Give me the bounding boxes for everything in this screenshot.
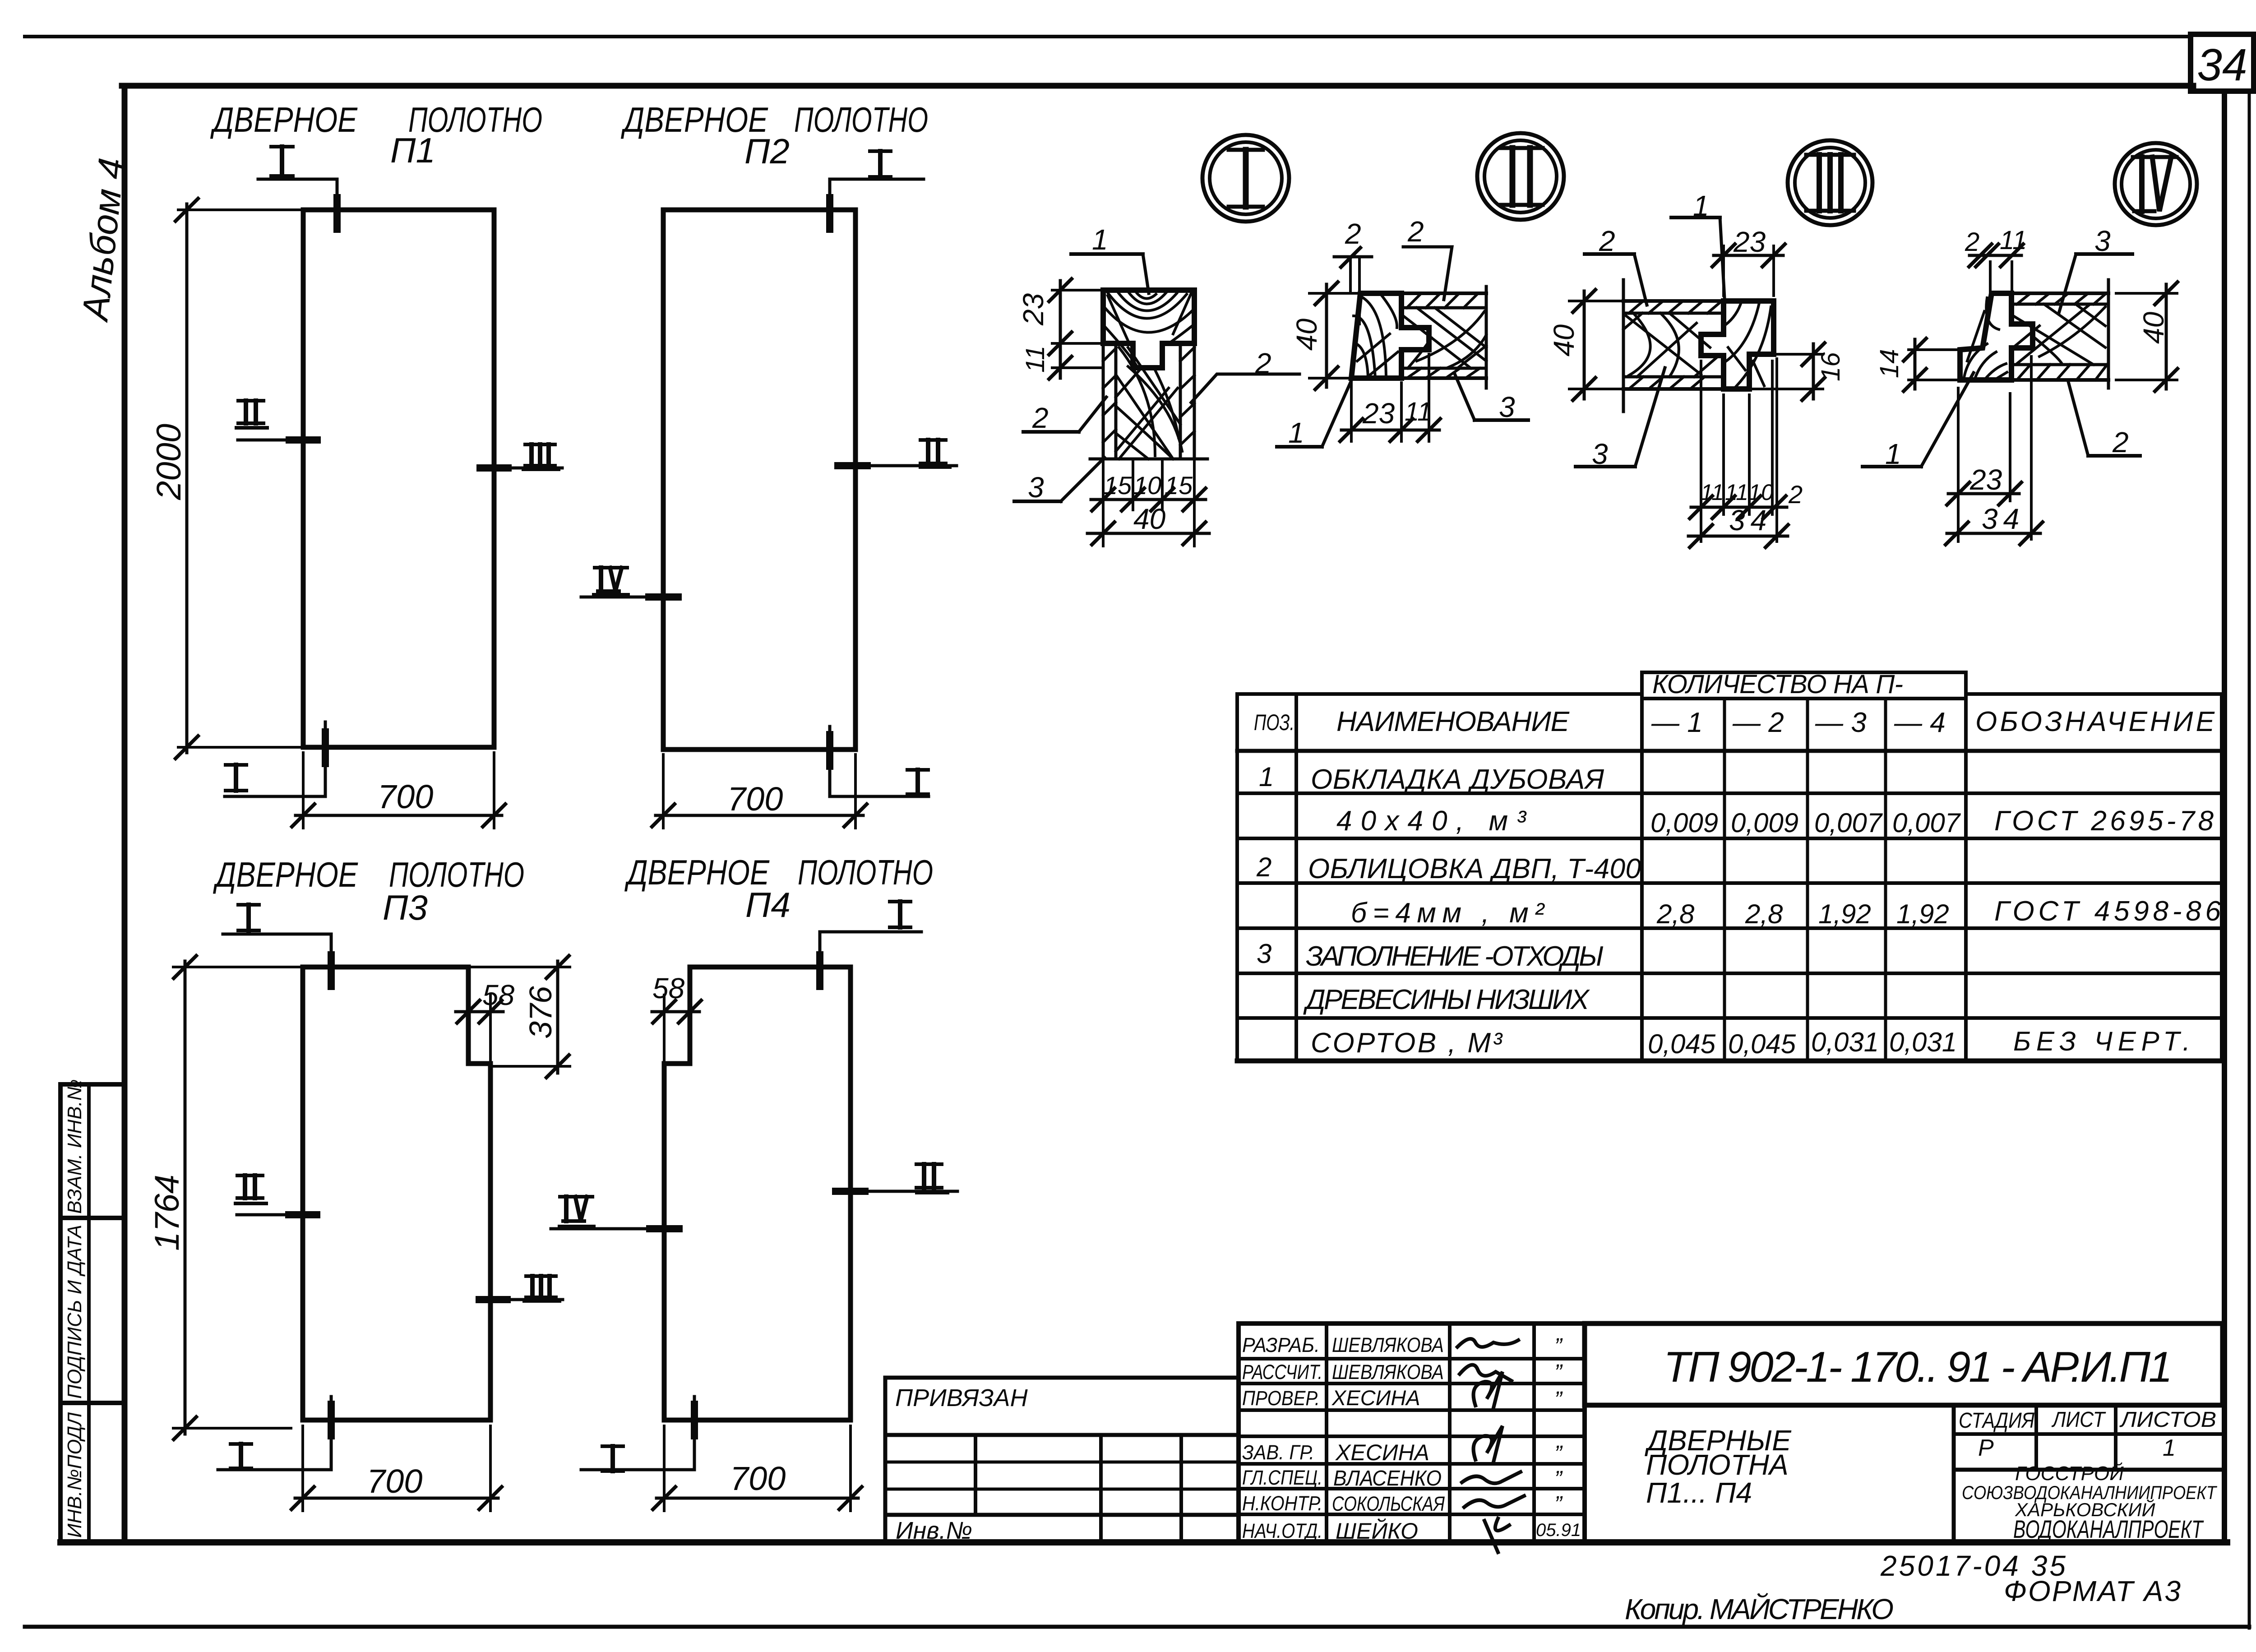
svg-text:2,8: 2,8 bbox=[1745, 899, 1783, 929]
svg-text:ХЕСИНА: ХЕСИНА bbox=[1335, 1440, 1429, 1465]
svg-text:ВЗАМ. ИНВ.№: ВЗАМ. ИНВ.№ bbox=[64, 1079, 86, 1214]
П2 dimension 700: dim line bbox=[656, 814, 863, 817]
svg-text:”: ” bbox=[1554, 1333, 1563, 1359]
svg-text:СТАДИЯ: СТАДИЯ bbox=[1959, 1409, 2034, 1433]
svg-text:СОКОЛЬСКАЯ: СОКОЛЬСКАЯ bbox=[1332, 1492, 1445, 1515]
svg-text:2: 2 bbox=[1255, 347, 1271, 379]
svg-text:ШЕЙКО: ШЕЙКО bbox=[1336, 1518, 1418, 1544]
sec I dims 23/11 left bbox=[1052, 289, 1106, 292]
filler piece 3: grain bbox=[1116, 347, 1182, 459]
DVP facing piece 2: left strip bbox=[1103, 343, 1194, 459]
break line right bbox=[1485, 287, 1488, 388]
svg-text:11: 11 bbox=[1725, 480, 1748, 505]
svg-text:23: 23 bbox=[1733, 226, 1766, 258]
П4 section mark I top bbox=[820, 932, 921, 986]
svg-text:— 3: — 3 bbox=[1815, 707, 1867, 738]
ТП designation box bbox=[1585, 1323, 2223, 1405]
svg-text:2,8: 2,8 bbox=[1656, 899, 1695, 929]
panel top DVP strip bbox=[2011, 292, 2108, 295]
section circle III bbox=[1788, 140, 1872, 225]
svg-text:”: ” bbox=[1554, 1491, 1563, 1517]
svg-text:— 2: — 2 bbox=[1732, 707, 1784, 738]
svg-text:ПРИВЯЗАН: ПРИВЯЗАН bbox=[895, 1384, 1028, 1411]
svg-text:— 1: — 1 bbox=[1651, 707, 1703, 738]
П2 mark II letter bbox=[920, 440, 946, 463]
signature squiggles bbox=[1457, 1339, 1524, 1552]
svg-text:ЗАПОЛНЕНИЕ -ОТХОДЫ: ЗАПОЛНЕНИЕ -ОТХОДЫ bbox=[1306, 941, 1604, 972]
panel filler grain bbox=[1623, 313, 1720, 377]
svg-text:2: 2 bbox=[1788, 480, 1803, 509]
piece 1 grain bbox=[1725, 301, 1771, 386]
svg-text:11: 11 bbox=[1701, 480, 1724, 505]
svg-text:11: 11 bbox=[2000, 226, 2027, 255]
П1 section mark II left: line bbox=[238, 439, 316, 442]
panel bottom DVP strip bbox=[1401, 367, 1486, 370]
svg-text:0,031: 0,031 bbox=[1811, 1027, 1879, 1057]
svg-text:ГОСТ 4598-86: ГОСТ 4598-86 bbox=[1994, 896, 2221, 927]
sec IV dim 14 left bbox=[1909, 348, 1960, 351]
oak edging piece 1: outline bbox=[1960, 293, 2033, 380]
sec I leader 3 bbox=[1014, 500, 1061, 503]
svg-text:ШЕВЛЯКОВА: ШЕВЛЯКОВА bbox=[1332, 1360, 1444, 1384]
П1 section mark I top: line bbox=[258, 179, 337, 228]
svg-text:ДВЕРНОЕ: ДВЕРНОЕ bbox=[213, 855, 358, 894]
П1 section mark I bottom bbox=[225, 722, 325, 796]
Количество header box bbox=[1642, 671, 1966, 674]
П4 dim 58: dim line bbox=[652, 1010, 699, 1013]
svg-text:— 4: — 4 bbox=[1894, 707, 1946, 738]
svg-text:Копир. МАЙСТРЕНКО: Копир. МАЙСТРЕНКО bbox=[1625, 1592, 1894, 1625]
svg-text:ХЕСИНА: ХЕСИНА bbox=[1331, 1386, 1420, 1410]
svg-text:П3: П3 bbox=[383, 888, 428, 927]
svg-text:0,045: 0,045 bbox=[1648, 1029, 1716, 1059]
svg-text:1: 1 bbox=[2163, 1435, 2176, 1461]
svg-text:ВЛАСЕНКО: ВЛАСЕНКО bbox=[1333, 1467, 1442, 1490]
svg-text:3: 3 bbox=[1499, 391, 1515, 423]
svg-text:1: 1 bbox=[1092, 223, 1108, 256]
привязан box bbox=[885, 1376, 1239, 1380]
П2 section mark IV left bbox=[581, 596, 676, 599]
svg-text:10: 10 bbox=[1748, 480, 1774, 505]
svg-text:2: 2 bbox=[2112, 426, 2129, 458]
main frame top border bbox=[122, 83, 2193, 89]
sec IV leader 3 bbox=[2076, 252, 2132, 256]
svg-text:3: 3 bbox=[1592, 438, 1608, 470]
oak edging piece 1: outline bbox=[1351, 293, 1429, 378]
svg-text:16: 16 bbox=[1816, 352, 1845, 381]
svg-text:3: 3 bbox=[1028, 471, 1044, 504]
svg-text:ЛИСТОВ: ЛИСТОВ bbox=[2119, 1408, 2216, 1432]
svg-text:ТП 902-1- 170.. 91 - АР.И.П1: ТП 902-1- 170.. 91 - АР.И.П1 bbox=[1664, 1343, 2173, 1391]
table outer borders bbox=[1237, 692, 1642, 696]
piece 1 grain bbox=[1964, 298, 2007, 380]
svg-text:ОБКЛАДКА ДУБОВАЯ: ОБКЛАДКА ДУБОВАЯ bbox=[1311, 764, 1604, 795]
П3 dim 58: dim line bbox=[456, 1010, 503, 1013]
svg-text:2: 2 bbox=[1345, 217, 1361, 250]
svg-text:ШЕВЛЯКОВА: ШЕВЛЯКОВА bbox=[1332, 1333, 1444, 1356]
svg-text:700: 700 bbox=[727, 780, 783, 818]
main frame right border bbox=[2222, 91, 2227, 1542]
стадия-лист grid bbox=[1952, 1405, 1956, 1541]
П1 dimension 2000: dim line bbox=[185, 204, 189, 753]
svg-text:2: 2 bbox=[1599, 225, 1615, 257]
П3 section mark III right bbox=[482, 1298, 563, 1301]
svg-text:05.91: 05.91 bbox=[1536, 1520, 1581, 1540]
door panel П3 outline with notch bbox=[303, 967, 490, 1420]
outer top border line bbox=[25, 35, 2191, 38]
signature block grid bbox=[1239, 1321, 1585, 1326]
sheet number box 34 bbox=[2191, 34, 2254, 91]
П3 section mark II left bbox=[237, 1213, 314, 1217]
main frame bottom border bbox=[60, 1539, 2227, 1546]
svg-text:П2: П2 bbox=[744, 131, 790, 171]
table row lines bbox=[1237, 791, 2222, 795]
sec IV dim 40 right bbox=[2116, 292, 2177, 295]
svg-text:34: 34 bbox=[1729, 504, 1772, 537]
section circle I bbox=[1202, 135, 1289, 222]
panel filler grain bbox=[2013, 304, 2105, 365]
П1 mark II letter bbox=[238, 401, 264, 423]
П4 dimension 700 bbox=[663, 1426, 666, 1511]
section circle IV bbox=[2115, 143, 2197, 225]
svg-text:1,92: 1,92 bbox=[1818, 899, 1871, 929]
П1 dimension 700: dim line bbox=[296, 814, 502, 817]
svg-text:ФОРМАТ А3: ФОРМАТ А3 bbox=[2004, 1575, 2181, 1607]
svg-text:Р: Р bbox=[1978, 1435, 1994, 1461]
svg-text:НАИМЕНОВАНИЕ: НАИМЕНОВАНИЕ bbox=[1336, 706, 1570, 737]
svg-text:3: 3 bbox=[2094, 225, 2111, 257]
П1 mark I top letter bbox=[271, 147, 293, 176]
svg-text:ОБОЗНАЧЕНИЕ: ОБОЗНАЧЕНИЕ bbox=[1975, 706, 2215, 737]
strip hatching bbox=[1103, 347, 1194, 445]
svg-text:БЕЗ ЧЕРТ.: БЕЗ ЧЕРТ. bbox=[2013, 1026, 2190, 1056]
svg-text:40: 40 bbox=[1133, 503, 1166, 535]
П3 dimension 700 bbox=[301, 1426, 304, 1511]
svg-text:0,045: 0,045 bbox=[1728, 1029, 1796, 1059]
svg-text:СОРТОВ , М³: СОРТОВ , М³ bbox=[1311, 1027, 1503, 1059]
sec II dim 40 left bbox=[1309, 292, 1359, 295]
svg-text:14: 14 bbox=[1875, 349, 1904, 378]
П3 mark III letter bbox=[526, 1276, 556, 1297]
sec III leader 2 bbox=[1585, 252, 1634, 256]
svg-text:ПОЛОТНО: ПОЛОТНО bbox=[798, 852, 933, 892]
svg-text:ГЛ.СПЕЦ.: ГЛ.СПЕЦ. bbox=[1242, 1466, 1322, 1489]
svg-text:3: 3 bbox=[1257, 939, 1271, 969]
П3 mark II letter bbox=[237, 1175, 263, 1198]
П1 mark I bottom letter bbox=[226, 765, 246, 791]
piece 1 grain arcs bbox=[1354, 294, 1398, 378]
outer bottom border line bbox=[25, 1625, 2249, 1629]
sec II leader 1 bbox=[1277, 445, 1322, 449]
П2 dimension 700: extension lines bbox=[662, 754, 665, 828]
sec IV leader 2 bbox=[2088, 454, 2140, 458]
svg-text:П1: П1 bbox=[390, 130, 435, 170]
svg-text:”: ” bbox=[1554, 1441, 1563, 1466]
panel top DVP strip bbox=[1401, 292, 1486, 295]
main frame left border bbox=[122, 86, 128, 1542]
sec III leader 1 bbox=[1671, 216, 1720, 219]
П2 mark I top letter bbox=[870, 151, 891, 177]
svg-text:ИНВ.№ПОДЛ: ИНВ.№ПОДЛ bbox=[64, 1412, 86, 1538]
sec III leader 3 bbox=[1576, 465, 1635, 468]
svg-text:11: 11 bbox=[1021, 346, 1050, 373]
svg-text:ДВЕРНОЕ: ДВЕРНОЕ bbox=[210, 100, 358, 139]
panel break line left bbox=[1622, 280, 1625, 412]
svg-text:Н.КОНТР.: Н.КОНТР. bbox=[1242, 1492, 1322, 1515]
svg-text:2: 2 bbox=[1032, 402, 1049, 434]
svg-text:40: 40 bbox=[1290, 318, 1323, 351]
П1 mark III letter bbox=[525, 444, 555, 466]
sec II leader 2 top bbox=[1403, 247, 1452, 300]
svg-text:1,92: 1,92 bbox=[1896, 899, 1949, 929]
sec IV dims 2/11 top bbox=[1989, 262, 1992, 292]
svg-text:1: 1 bbox=[1693, 190, 1709, 222]
svg-text:15: 15 bbox=[1104, 471, 1132, 500]
door panel П2 outline bbox=[663, 210, 855, 750]
svg-text:2000: 2000 bbox=[150, 424, 188, 500]
svg-text:НАЧ.ОТД.: НАЧ.ОТД. bbox=[1242, 1519, 1322, 1542]
svg-text:23: 23 bbox=[1969, 463, 2002, 496]
sec II bottom dims 23/11 bbox=[1350, 383, 1353, 441]
svg-text:2: 2 bbox=[1407, 215, 1424, 248]
svg-text:”: ” bbox=[1554, 1466, 1563, 1491]
svg-text:ВОДОКАНАЛПРОЕКТ: ВОДОКАНАЛПРОЕКТ bbox=[2013, 1515, 2204, 1543]
svg-text:”: ” bbox=[1554, 1360, 1563, 1385]
sec III bottom dims 11/11/10/2 and 34 bbox=[1700, 361, 1702, 541]
svg-text:2: 2 bbox=[1965, 227, 1979, 257]
svg-text:34: 34 bbox=[1982, 503, 2025, 535]
svg-text:П1... П4: П1... П4 bbox=[1646, 1476, 1752, 1509]
svg-text:11: 11 bbox=[1405, 397, 1432, 426]
П4 mark II letter bbox=[916, 1164, 942, 1188]
svg-text:58: 58 bbox=[652, 972, 685, 1004]
svg-text:58: 58 bbox=[482, 979, 515, 1011]
panel filler grain bbox=[1403, 308, 1486, 368]
svg-text:40: 40 bbox=[2137, 311, 2170, 344]
svg-text:ГОСТ 2695-78: ГОСТ 2695-78 bbox=[1994, 805, 2214, 837]
svg-text:40: 40 bbox=[1548, 324, 1580, 356]
svg-text:РАССЧИТ.: РАССЧИТ. bbox=[1242, 1360, 1322, 1384]
svg-text:КОЛИЧЕСТВО НА П-: КОЛИЧЕСТВО НА П- bbox=[1652, 670, 1903, 699]
svg-text:ПРОВЕР.: ПРОВЕР. bbox=[1242, 1387, 1320, 1410]
svg-text:ПОЛОТНО: ПОЛОТНО bbox=[794, 100, 928, 139]
П2 section mark I bottom bbox=[830, 727, 929, 796]
door panel П4 outline with notch bbox=[664, 967, 851, 1420]
panel bottom DVP strip bbox=[1623, 375, 1724, 379]
svg-text:376: 376 bbox=[523, 986, 558, 1039]
svg-text:1: 1 bbox=[1885, 438, 1901, 470]
svg-text:700: 700 bbox=[367, 1462, 422, 1500]
svg-text:700: 700 bbox=[378, 778, 433, 815]
П3 dimension 1764: dim line bbox=[184, 961, 187, 1434]
sec III dim 40 left bbox=[1569, 300, 1623, 302]
break line right bbox=[2107, 280, 2110, 388]
svg-text:1: 1 bbox=[1288, 416, 1304, 449]
svg-text:23: 23 bbox=[1362, 397, 1395, 430]
П2 mark IV letter bbox=[595, 568, 627, 591]
sec III dim 16 right bbox=[1775, 353, 1823, 356]
panel bottom DVP strip bbox=[2011, 363, 2108, 366]
sec II leader 3 bbox=[1475, 418, 1528, 422]
svg-text:Инв.№: Инв.№ bbox=[896, 1517, 972, 1544]
svg-text:0,007: 0,007 bbox=[1814, 808, 1883, 838]
П1 section mark III right: line bbox=[483, 467, 562, 470]
П3 mark I bottom letter bbox=[231, 1444, 251, 1468]
svg-text:1: 1 bbox=[1259, 762, 1274, 792]
svg-text:34: 34 bbox=[2197, 40, 2247, 90]
П4 mark I bottom letter bbox=[602, 1446, 623, 1471]
sec II dim 2 top-left bbox=[1334, 255, 1372, 259]
svg-text:ПОЗ.: ПОЗ. bbox=[1254, 710, 1294, 735]
oak edging piece 1: outline bbox=[1701, 301, 1774, 389]
svg-text:2: 2 bbox=[1256, 852, 1271, 882]
table column lines bbox=[1294, 694, 1298, 1061]
svg-text:ОБЛИЦОВКА ДВП, Т-400: ОБЛИЦОВКА ДВП, Т-400 bbox=[1308, 853, 1641, 884]
П4 mark IV letter bbox=[560, 1197, 592, 1221]
svg-text:ДРЕВЕСИНЫ НИЗШИХ: ДРЕВЕСИНЫ НИЗШИХ bbox=[1303, 984, 1590, 1015]
svg-text:15: 15 bbox=[1165, 471, 1193, 500]
sec I leader 1 bbox=[1071, 252, 1143, 256]
П1 dimension 2000: extension lines bbox=[178, 208, 303, 211]
sec IV leader 1 bbox=[1863, 465, 1921, 468]
svg-text:ЛИСТ: ЛИСТ bbox=[2051, 1408, 2106, 1432]
oak edging piece 1: outline bbox=[1103, 290, 1194, 368]
П2 section mark II right bbox=[839, 464, 957, 467]
П4 section mark IV left bbox=[551, 1227, 676, 1231]
svg-text:0,009: 0,009 bbox=[1731, 808, 1798, 838]
svg-text:700: 700 bbox=[730, 1460, 786, 1497]
П3 dim 376: dim line bbox=[556, 961, 559, 1073]
svg-text:23: 23 bbox=[1017, 293, 1049, 326]
П3 dim 376: extensions bbox=[468, 966, 570, 968]
svg-text:ГОССТРОЙ: ГОССТРОЙ bbox=[2015, 1462, 2124, 1485]
svg-text:РАЗРАБ.: РАЗРАБ. bbox=[1242, 1333, 1320, 1356]
П1 dimension 700: extension lines bbox=[302, 753, 305, 828]
svg-text:40х40, м³: 40х40, м³ bbox=[1336, 805, 1527, 837]
sec I bottom dims 15/10/15 and 40 bbox=[1102, 459, 1105, 546]
door panel П1 outline bbox=[303, 210, 494, 747]
svg-text:ПОДПИСЬ И ДАТА: ПОДПИСЬ И ДАТА bbox=[64, 1225, 86, 1399]
sec I leader 2 left bbox=[1023, 430, 1079, 434]
panel top DVP strip bbox=[1623, 299, 1724, 303]
svg-text:1764: 1764 bbox=[148, 1175, 186, 1251]
П2 mark I bottom letter bbox=[907, 770, 928, 794]
sec I leader 2 right bbox=[1191, 374, 1299, 403]
П4 mark I top letter bbox=[890, 902, 911, 927]
sec IV bottom dims 23 and 34 bbox=[1957, 388, 1960, 541]
svg-text:ЗАВ. ГР.: ЗАВ. ГР. bbox=[1242, 1441, 1314, 1464]
П3 mark I top letter bbox=[238, 905, 259, 930]
break line bottom bbox=[1090, 458, 1207, 461]
П4 section mark I bottom bbox=[581, 1397, 694, 1470]
svg-text:0,009: 0,009 bbox=[1650, 808, 1718, 838]
left margin stamp boxes bbox=[58, 1084, 63, 1542]
П3 dimension 1764: extensions bbox=[173, 966, 303, 968]
svg-text:0,007: 0,007 bbox=[1892, 808, 1961, 838]
section circle II bbox=[1477, 133, 1564, 220]
outer right border line bbox=[2248, 90, 2251, 1628]
П4 section mark II right bbox=[840, 1190, 957, 1193]
П2 section mark I top bbox=[830, 179, 924, 228]
П3 section mark I top bbox=[223, 934, 331, 986]
svg-text:”: ” bbox=[1554, 1387, 1563, 1412]
svg-text:0,031: 0,031 bbox=[1889, 1027, 1957, 1057]
П3 section mark I bottom bbox=[218, 1397, 331, 1470]
svg-text:10: 10 bbox=[1133, 471, 1161, 500]
header bottom line bbox=[1237, 749, 2222, 753]
sec III dim 23 top bbox=[1722, 246, 1725, 296]
piece 1 wood grain arcs bbox=[1104, 292, 1193, 366]
svg-text:б=4мм , м²: б=4мм , м² bbox=[1351, 898, 1545, 929]
svg-text:П4: П4 bbox=[745, 885, 791, 925]
